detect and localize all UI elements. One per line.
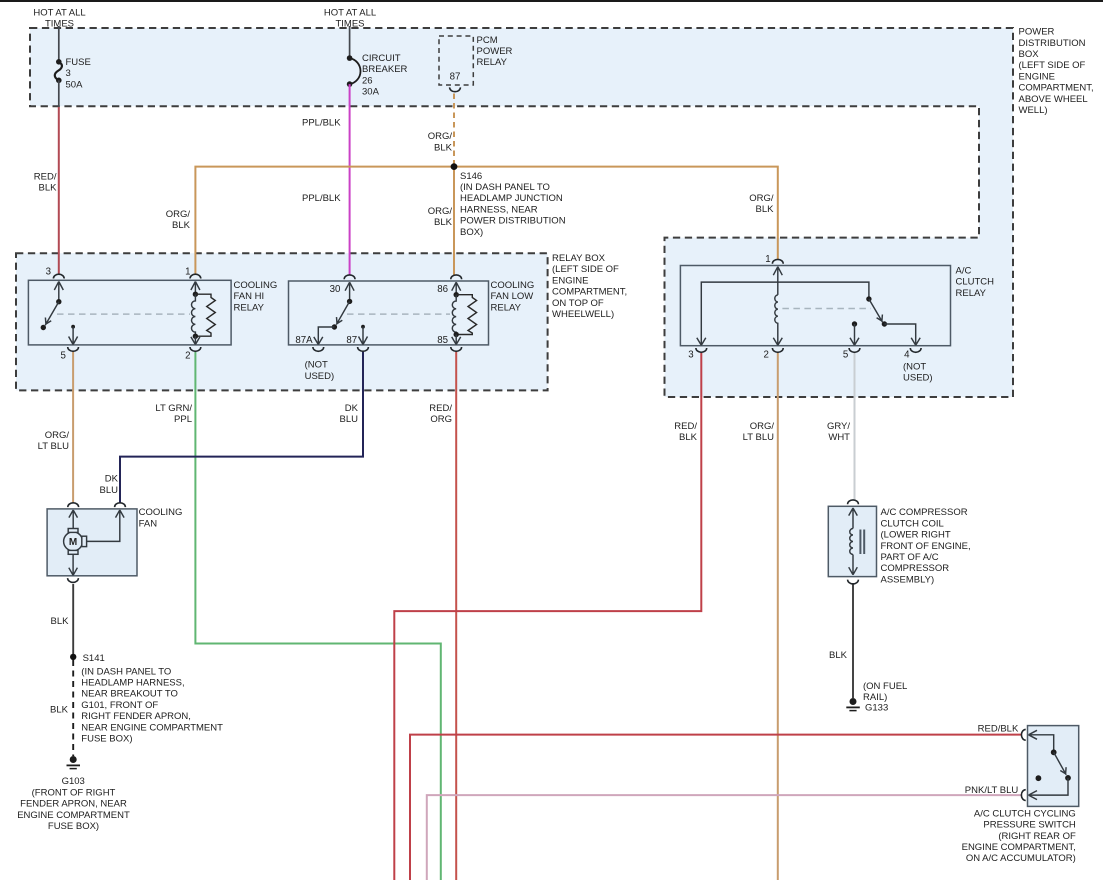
cooling fan right terminal bbox=[115, 503, 126, 507]
cooling fan bottom terminal bbox=[68, 578, 79, 582]
svg-text:87: 87 bbox=[346, 335, 357, 346]
svg-text:ORG/: ORG/ bbox=[428, 206, 453, 217]
A/C relay pin 5 terminal bbox=[849, 348, 860, 352]
wire RED/ORG relay pin 85 to page bottom bbox=[455, 352, 457, 880]
svg-text:(LEFT SIDE OF: (LEFT SIDE OF bbox=[1019, 60, 1086, 71]
svg-text:ORG/: ORG/ bbox=[750, 421, 775, 432]
low relay switch contact dot bbox=[332, 324, 337, 329]
low relay pin 85 terminal bbox=[451, 347, 462, 351]
svg-text:(LEFT SIDE OF: (LEFT SIDE OF bbox=[552, 264, 619, 275]
svg-text:DISTRIBUTION: DISTRIBUTION bbox=[1019, 38, 1086, 49]
hi relay pin 2 terminal bbox=[190, 347, 201, 351]
circuit breaker 26 30A symbol bbox=[350, 58, 361, 84]
top border line bbox=[0, 0, 1103, 2]
svg-text:BOX: BOX bbox=[1019, 49, 1040, 60]
svg-text:NEAR ENGINE COMPARTMENT: NEAR ENGINE COMPARTMENT bbox=[81, 722, 223, 733]
svg-text:HEADLAMP JUNCTION: HEADLAMP JUNCTION bbox=[460, 193, 563, 204]
A/C relay pin 5 contact dot and arrow down bbox=[852, 321, 857, 326]
svg-text:CIRCUIT: CIRCUIT bbox=[362, 53, 401, 64]
clutch coil top lead arrow up bbox=[849, 508, 858, 529]
hi relay switch common dot bbox=[56, 299, 61, 304]
svg-text:BOX): BOX) bbox=[460, 227, 483, 238]
svg-text:GRY/: GRY/ bbox=[827, 421, 850, 432]
svg-text:CLUTCH COIL: CLUTCH COIL bbox=[881, 518, 944, 529]
svg-text:RELAY: RELAY bbox=[477, 57, 508, 68]
wire BLK compressor clutch coil to ground G133 bbox=[852, 583, 854, 698]
svg-text:COMPARTMENT,: COMPARTMENT, bbox=[552, 287, 627, 298]
low relay coil lower junction dot bbox=[454, 332, 459, 337]
svg-text:4: 4 bbox=[904, 350, 910, 361]
A/C relay pin 1 terminal bbox=[772, 259, 783, 263]
A/C relay pin 2 arrow down bbox=[773, 336, 782, 345]
svg-text:(RIGHT REAR OF: (RIGHT REAR OF bbox=[998, 831, 1076, 842]
svg-text:RIGHT FENDER APRON,: RIGHT FENDER APRON, bbox=[81, 711, 191, 722]
svg-text:5: 5 bbox=[61, 351, 66, 362]
svg-text:2: 2 bbox=[764, 350, 769, 361]
cooling fan bottom lead arrow down bbox=[69, 554, 78, 575]
A/C relay switch contact dot bbox=[882, 321, 887, 326]
pressure switch upper lead arrow left bbox=[1029, 730, 1054, 749]
A/C relay pin 1 arrow up and lead bbox=[773, 267, 782, 295]
svg-text:BLK: BLK bbox=[434, 142, 453, 153]
hi relay pin 3 arrow up bbox=[54, 282, 63, 302]
wire ORG/BLK branch S146 down to pin 86 bbox=[453, 167, 455, 275]
svg-text:NEAR BREAKOUT TO: NEAR BREAKOUT TO bbox=[81, 689, 178, 700]
svg-text:ENGINE COMPARTMENT,: ENGINE COMPARTMENT, bbox=[962, 842, 1076, 853]
splice S141 junction dot bbox=[70, 654, 76, 660]
svg-text:(IN DASH PANEL TO: (IN DASH PANEL TO bbox=[81, 666, 171, 677]
svg-text:PNK/LT BLU: PNK/LT BLU bbox=[965, 785, 1019, 796]
A/C relay internal bus pin3 to switch bbox=[701, 282, 869, 345]
svg-text:COMPARTMENT,: COMPARTMENT, bbox=[1019, 83, 1094, 94]
low relay pin 30 arrow up bbox=[345, 282, 354, 301]
svg-text:3: 3 bbox=[66, 68, 71, 79]
svg-text:ENGINE: ENGINE bbox=[552, 275, 588, 286]
pressure switch common dot bbox=[1051, 749, 1057, 755]
svg-text:BLK: BLK bbox=[756, 204, 775, 215]
power distribution box region (shaded, dashed outline) bbox=[30, 28, 1013, 397]
low relay contact to pin 87A bbox=[314, 327, 335, 345]
wire: hot feed to fuse (black) bbox=[58, 26, 60, 61]
svg-text:ABOVE WHEEL: ABOVE WHEEL bbox=[1019, 94, 1088, 105]
svg-text:BLU: BLU bbox=[340, 414, 359, 425]
clutch coil winding bbox=[850, 529, 853, 555]
wire ORG/LT BLU A/C relay pin 2 to page bottom bbox=[777, 353, 779, 880]
hi relay pin 5 terminal bbox=[68, 347, 79, 351]
svg-text:A/C CLUTCH CYCLING: A/C CLUTCH CYCLING bbox=[974, 808, 1076, 819]
hi relay dashed actuation link bbox=[57, 313, 190, 315]
svg-text:USED): USED) bbox=[903, 373, 933, 384]
motor right terminal tab bbox=[82, 536, 87, 546]
svg-text:BLK: BLK bbox=[829, 650, 848, 661]
svg-text:COMPRESSOR: COMPRESSOR bbox=[881, 563, 950, 574]
A/C relay dashed actuation link bbox=[782, 308, 870, 310]
svg-text:BLK: BLK bbox=[39, 183, 58, 194]
svg-text:CLUTCH: CLUTCH bbox=[956, 277, 995, 288]
cooling fan right lead arrow up from motor bbox=[87, 510, 125, 541]
clutch coil core bars bbox=[860, 530, 864, 555]
svg-text:(NOT: (NOT bbox=[903, 362, 926, 373]
svg-text:87A: 87A bbox=[295, 335, 313, 346]
svg-text:ORG: ORG bbox=[430, 414, 452, 425]
pressure switch open contact dot bbox=[1036, 775, 1042, 781]
svg-text:BLU: BLU bbox=[100, 485, 119, 496]
svg-text:ENGINE: ENGINE bbox=[1019, 71, 1055, 82]
hi relay coil winding bbox=[191, 294, 195, 336]
cooling fan left terminal bbox=[68, 503, 79, 507]
svg-text:BLK: BLK bbox=[51, 616, 70, 627]
motor bottom brush bbox=[68, 550, 78, 554]
svg-text:BREAKER: BREAKER bbox=[362, 64, 408, 75]
svg-text:BLK: BLK bbox=[679, 432, 698, 443]
wire ORG/BLK bus: relay pin1 up, across, down to A/C relay pin 1 bbox=[195, 167, 777, 275]
svg-text:POWER: POWER bbox=[477, 46, 513, 57]
pressure switch lower terminal bbox=[1021, 790, 1025, 801]
hi relay pin 3 terminal bbox=[53, 274, 64, 278]
svg-text:5: 5 bbox=[843, 350, 848, 361]
hi relay coil lower junction dot bbox=[193, 334, 198, 339]
svg-text:A/C: A/C bbox=[956, 266, 972, 277]
svg-text:COOLING: COOLING bbox=[139, 507, 183, 518]
fuse F3 50A symbol bbox=[55, 62, 62, 80]
svg-text:TIMES: TIMES bbox=[335, 19, 364, 30]
wire BLK cooling fan to splice S141 bbox=[72, 584, 74, 657]
A/C relay pin 2 terminal bbox=[772, 348, 783, 352]
svg-text:FUSE BOX): FUSE BOX) bbox=[81, 734, 132, 745]
PCM relay pin 87 terminal bbox=[450, 87, 461, 91]
low relay pin 86 terminal bbox=[451, 275, 462, 279]
svg-text:ORG/: ORG/ bbox=[166, 209, 191, 220]
svg-text:G101, FRONT OF: G101, FRONT OF bbox=[81, 700, 158, 711]
ground symbol G133 bbox=[846, 699, 860, 711]
svg-text:DK: DK bbox=[345, 403, 359, 414]
ground symbol G103 bbox=[67, 757, 81, 769]
svg-text:FAN LOW: FAN LOW bbox=[491, 291, 534, 302]
svg-text:ASSEMBLY): ASSEMBLY) bbox=[881, 574, 935, 585]
svg-text:86: 86 bbox=[437, 284, 448, 295]
svg-text:WHEELWELL): WHEELWELL) bbox=[552, 309, 614, 320]
A/C compressor clutch coil box bbox=[828, 506, 876, 576]
motor M circle bbox=[64, 532, 83, 551]
svg-text:FENDER APRON, NEAR: FENDER APRON, NEAR bbox=[20, 799, 127, 810]
svg-text:LT BLU: LT BLU bbox=[38, 441, 69, 452]
wire BLK dashed S141 to ground G103 bbox=[72, 660, 74, 756]
hi relay pin 5 contact dot and arrow down bbox=[71, 325, 75, 329]
svg-text:PPL: PPL bbox=[174, 414, 192, 425]
svg-text:PPL/BLK: PPL/BLK bbox=[302, 118, 341, 129]
hi relay pin 1 terminal bbox=[190, 274, 201, 278]
A/C relay contact to pin 4 bbox=[884, 324, 920, 345]
svg-text:87: 87 bbox=[450, 72, 461, 83]
svg-text:30A: 30A bbox=[362, 87, 380, 98]
PCM power relay dashed box bbox=[439, 36, 473, 85]
clutch coil bottom terminal bbox=[848, 580, 859, 584]
svg-text:USED): USED) bbox=[305, 371, 335, 382]
svg-text:RELAY: RELAY bbox=[956, 288, 987, 299]
low relay pin 85 arrow down bbox=[452, 335, 461, 345]
clutch coil top terminal bbox=[848, 500, 859, 504]
pressure switch upper terminal bbox=[1021, 729, 1025, 740]
wire RED/BLK fuse to cooling fan hi relay pin 3 bbox=[58, 107, 60, 275]
hi relay pin 2 arrow down bbox=[191, 336, 200, 344]
A/C relay pin 4 terminal bbox=[910, 348, 921, 352]
wire PPL/BLK breaker to cooling fan low relay pin 30 bbox=[349, 84, 351, 275]
svg-text:POWER DISTRIBUTION: POWER DISTRIBUTION bbox=[460, 216, 566, 227]
low relay pin 87A terminal bbox=[313, 347, 324, 351]
svg-text:HOT AT ALL: HOT AT ALL bbox=[324, 7, 376, 18]
hi relay switch lever with arrow bbox=[45, 302, 59, 326]
svg-text:PRESSURE SWITCH: PRESSURE SWITCH bbox=[983, 820, 1076, 831]
cooling fan hi relay box bbox=[28, 280, 231, 345]
wire: fuse to bottom of power box (black) bbox=[58, 80, 60, 107]
svg-text:HOT AT ALL: HOT AT ALL bbox=[33, 7, 85, 18]
svg-text:DK: DK bbox=[105, 474, 119, 485]
svg-text:FAN HI: FAN HI bbox=[234, 291, 265, 302]
svg-text:2: 2 bbox=[185, 351, 190, 362]
svg-text:3: 3 bbox=[46, 267, 51, 278]
svg-text:BLK: BLK bbox=[50, 704, 69, 715]
svg-text:BLK: BLK bbox=[434, 217, 453, 228]
low relay pin 87 contact dot and arrow down bbox=[361, 325, 365, 329]
svg-text:RED/: RED/ bbox=[429, 403, 452, 414]
svg-text:S146: S146 bbox=[460, 171, 482, 182]
wire LT GRN/PPL relay pin 2 down, right, down to page bottom bbox=[195, 352, 440, 880]
pressure switch lower lead arrow left bbox=[1029, 778, 1069, 800]
motor top brush bbox=[68, 529, 78, 533]
svg-text:HEADLAMP HARNESS,: HEADLAMP HARNESS, bbox=[81, 678, 184, 689]
svg-text:RED/: RED/ bbox=[674, 421, 697, 432]
svg-text:(NOT: (NOT bbox=[305, 360, 328, 371]
svg-text:RELAY: RELAY bbox=[491, 302, 522, 313]
cooling fan left lead arrow up bbox=[69, 510, 78, 529]
cooling fan low relay box bbox=[289, 281, 489, 345]
low relay switch common dot bbox=[347, 299, 352, 304]
hi relay pin 1 arrow up and lead bbox=[191, 282, 200, 295]
svg-text:3: 3 bbox=[688, 350, 693, 361]
svg-text:RELAY BOX: RELAY BOX bbox=[552, 253, 606, 264]
svg-text:PART OF A/C: PART OF A/C bbox=[881, 552, 939, 563]
svg-text:COOLING: COOLING bbox=[491, 280, 535, 291]
svg-text:ON A/C ACCUMULATOR): ON A/C ACCUMULATOR) bbox=[966, 853, 1076, 864]
svg-text:1: 1 bbox=[765, 254, 770, 265]
svg-text:(IN DASH PANEL TO: (IN DASH PANEL TO bbox=[460, 182, 550, 193]
svg-text:50A: 50A bbox=[66, 79, 84, 90]
svg-text:A/C COMPRESSOR: A/C COMPRESSOR bbox=[881, 507, 968, 518]
svg-text:ORG/: ORG/ bbox=[428, 131, 453, 142]
svg-text:G103: G103 bbox=[62, 776, 85, 787]
svg-text:26: 26 bbox=[362, 75, 373, 86]
svg-text:PPL/BLK: PPL/BLK bbox=[302, 193, 341, 204]
clutch coil bottom lead arrow down bbox=[849, 555, 858, 575]
A/C relay pin 3 arrow down bbox=[697, 338, 706, 346]
svg-text:BLK: BLK bbox=[172, 220, 191, 231]
wire DK BLU relay pin 87 down, left, down to cooling fan bbox=[120, 352, 363, 503]
svg-text:FRONT OF ENGINE,: FRONT OF ENGINE, bbox=[881, 541, 971, 552]
cooling fan box bbox=[47, 509, 137, 576]
svg-text:ORG/: ORG/ bbox=[749, 193, 774, 204]
A/C relay switch common dot bbox=[866, 296, 871, 301]
svg-text:RAIL): RAIL) bbox=[863, 692, 887, 703]
svg-text:M: M bbox=[69, 537, 77, 548]
svg-text:1: 1 bbox=[185, 267, 190, 278]
svg-text:POWER: POWER bbox=[1019, 27, 1055, 38]
svg-text:ENGINE COMPARTMENT: ENGINE COMPARTMENT bbox=[17, 810, 130, 821]
svg-text:PCM: PCM bbox=[477, 35, 498, 46]
hi relay switch contact dot bbox=[41, 325, 46, 330]
A/C relay coil winding bbox=[775, 295, 778, 336]
svg-text:HARNESS, NEAR: HARNESS, NEAR bbox=[460, 204, 538, 215]
low relay parallel resistor bbox=[456, 295, 476, 335]
pressure switch contact dot (connected) bbox=[1065, 775, 1071, 781]
low relay pin 30 terminal bbox=[344, 275, 355, 279]
svg-text:85: 85 bbox=[437, 335, 448, 346]
svg-text:LT GRN/: LT GRN/ bbox=[155, 403, 192, 414]
svg-text:RED/BLK: RED/BLK bbox=[978, 723, 1019, 734]
hi relay coil upper junction dot bbox=[193, 292, 198, 297]
low relay coil winding bbox=[452, 295, 456, 335]
svg-text:FUSE: FUSE bbox=[66, 57, 91, 68]
A/C pressure switch box bbox=[1028, 726, 1079, 807]
low relay pin 87 terminal bbox=[358, 347, 369, 351]
svg-text:WHT: WHT bbox=[828, 432, 850, 443]
pressure switch lever with arrow bbox=[1054, 752, 1067, 775]
svg-text:WELL): WELL) bbox=[1019, 105, 1048, 116]
wire ORG/LT BLU relay pin 5 to cooling fan bbox=[72, 352, 74, 503]
low relay pin 86 arrow up and lead bbox=[452, 282, 461, 295]
svg-text:RED/: RED/ bbox=[34, 171, 57, 182]
splice S146 junction dot bbox=[451, 163, 458, 170]
svg-text:(ON FUEL: (ON FUEL bbox=[863, 681, 907, 692]
svg-text:ORG/: ORG/ bbox=[45, 430, 70, 441]
wire RED/BLK from page bottom up and right to pressure switch bbox=[410, 735, 1022, 880]
svg-text:FUSE BOX): FUSE BOX) bbox=[48, 821, 99, 832]
svg-text:LT BLU: LT BLU bbox=[743, 432, 774, 443]
low relay switch lever with arrow bbox=[336, 301, 349, 324]
svg-text:(FRONT OF RIGHT: (FRONT OF RIGHT bbox=[32, 787, 116, 798]
wire ORG/BLK dashed from PCM power relay pin 87 to splice S146 bbox=[453, 94, 455, 167]
svg-text:RELAY: RELAY bbox=[234, 302, 265, 313]
wire: hot feed to circuit breaker (black) bbox=[349, 26, 351, 58]
relay box region (shaded, dashed outline) bbox=[16, 253, 548, 390]
wire PNK/LT BLU from page bottom up and right to pressure switch bbox=[427, 795, 1022, 880]
wire RED/BLK A/C relay pin 3 down, left, down to page bottom bbox=[394, 353, 701, 880]
svg-text:ON TOP OF: ON TOP OF bbox=[552, 298, 604, 309]
svg-text:FAN: FAN bbox=[139, 518, 158, 529]
A/C relay switch lever with arrow bbox=[869, 299, 883, 322]
A/C relay pin 3 terminal bbox=[696, 348, 707, 352]
svg-text:COOLING: COOLING bbox=[234, 280, 278, 291]
svg-text:G133: G133 bbox=[865, 702, 888, 713]
svg-text:30: 30 bbox=[330, 284, 341, 295]
wire GRY/WHT A/C relay pin 5 to compressor clutch coil bbox=[854, 353, 856, 500]
low relay coil upper junction dot bbox=[454, 292, 459, 297]
A/C clutch relay box bbox=[680, 266, 950, 346]
svg-text:(LOWER RIGHT: (LOWER RIGHT bbox=[881, 530, 951, 541]
svg-text:S141: S141 bbox=[83, 653, 105, 664]
hi relay parallel resistor bbox=[195, 294, 215, 336]
low relay dashed actuation link bbox=[347, 313, 450, 315]
svg-text:TIMES: TIMES bbox=[45, 19, 74, 30]
